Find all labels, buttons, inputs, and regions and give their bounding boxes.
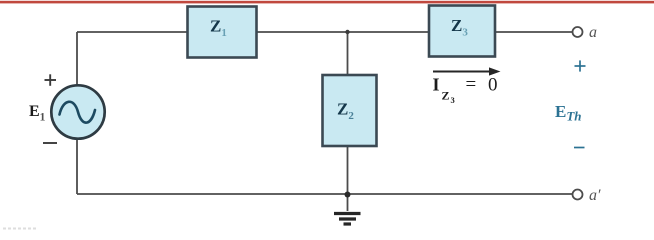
svg-text:I: I xyxy=(433,75,440,95)
svg-text:a: a xyxy=(589,24,597,41)
svg-text:=: = xyxy=(466,74,477,95)
svg-text:a′: a′ xyxy=(589,187,601,204)
svg-text:3: 3 xyxy=(451,95,455,105)
svg-text:E1: E1 xyxy=(29,103,46,124)
svg-text:ETh: ETh xyxy=(555,102,582,124)
svg-text:0: 0 xyxy=(488,75,498,96)
svg-text:Z: Z xyxy=(442,89,450,103)
